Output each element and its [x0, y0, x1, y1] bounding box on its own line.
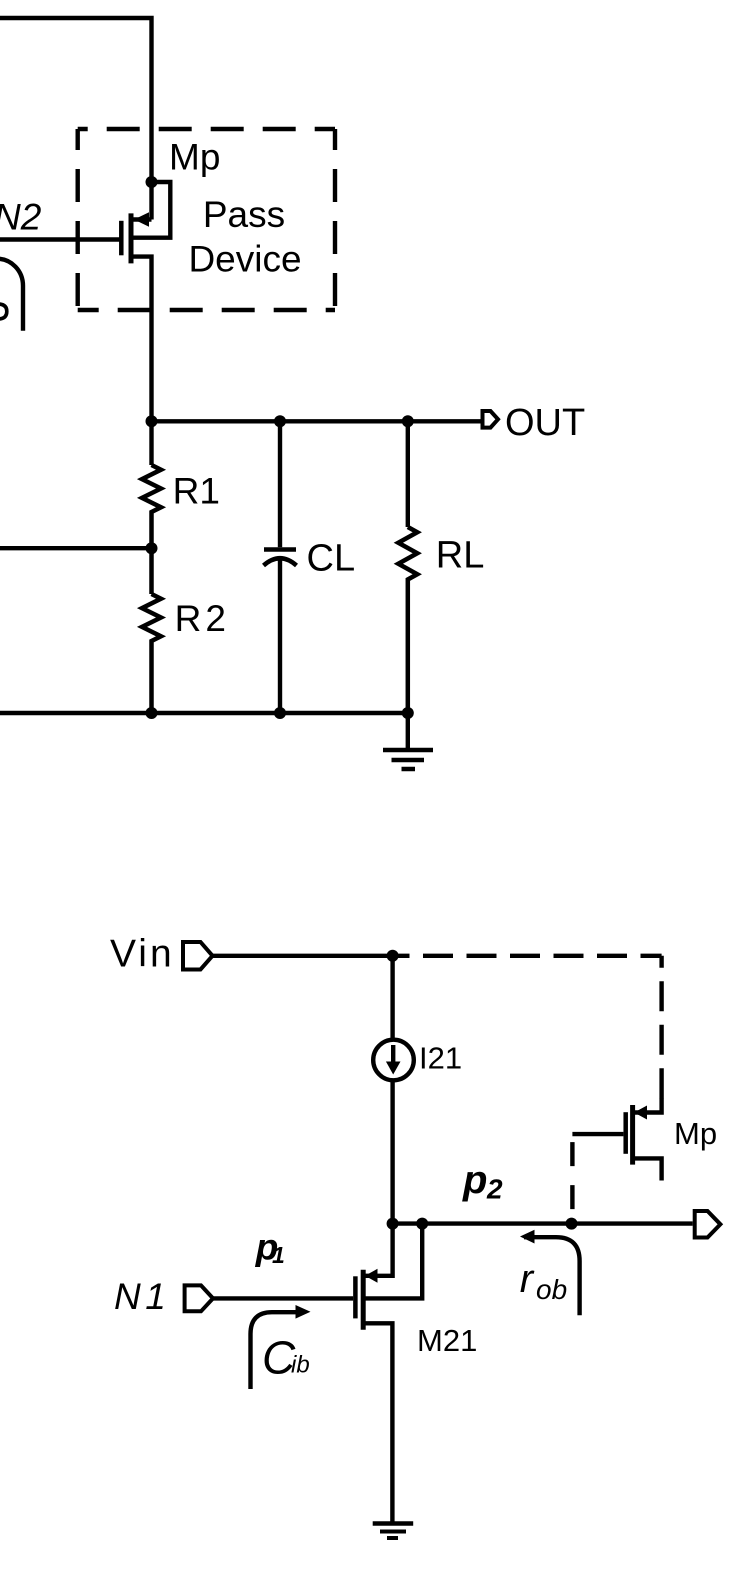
svg-text:M21: M21 — [417, 1323, 477, 1358]
svg-text:Mp: Mp — [169, 137, 220, 178]
svg-text:r: r — [520, 1257, 535, 1301]
svg-text:N2: N2 — [0, 197, 42, 238]
svg-text:Vin: Vin — [110, 933, 175, 976]
svg-text:p: p — [462, 1158, 487, 1202]
svg-text:Device: Device — [188, 238, 301, 279]
svg-text:R1: R1 — [173, 471, 220, 512]
svg-text:2: 2 — [486, 1174, 503, 1205]
svg-text:ob: ob — [536, 1274, 567, 1305]
svg-text:R2: R2 — [175, 598, 230, 639]
svg-text:CL: CL — [307, 537, 356, 579]
svg-text:OUT: OUT — [505, 402, 585, 444]
svg-text:RL: RL — [436, 535, 485, 577]
svg-text:N1: N1 — [114, 1276, 170, 1317]
svg-text:I21: I21 — [419, 1041, 462, 1076]
svg-text:ib: ib — [291, 1352, 310, 1379]
svg-text:1: 1 — [272, 1242, 285, 1268]
svg-text:Mp: Mp — [674, 1116, 717, 1151]
svg-text:Pass: Pass — [203, 194, 285, 235]
